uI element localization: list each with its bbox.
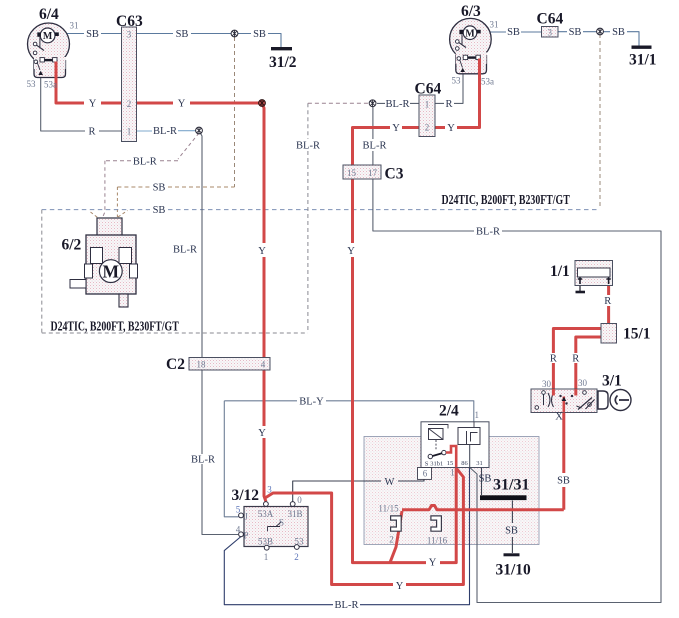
svg-text:S: S [425, 461, 429, 468]
ground 31/2 [271, 47, 292, 50]
svg-text:31: 31 [70, 21, 79, 31]
svg-text:SB: SB [507, 27, 520, 38]
svg-text:6/2: 6/2 [62, 237, 82, 254]
wire BL-R right loop: C3 pin17 down, right, bottom, up to relay pin86 [373, 103, 661, 602]
svg-text:SB: SB [253, 29, 266, 40]
svg-text:31/2: 31/2 [269, 54, 297, 71]
wire SB red from ignition 3/1 X down to bus [562, 396, 565, 510]
wire Y from motor 6/4 pin53a to junction [56, 62, 262, 104]
wire SB dashed drop to pump 6/2 right terminal [117, 187, 127, 217]
wire BL-R from 3/12 pin4 down to bottom rail [224, 468, 469, 605]
svg-text:2: 2 [127, 99, 132, 109]
svg-text:6/3: 6/3 [461, 3, 481, 20]
svg-text:1: 1 [264, 552, 269, 562]
svg-text:0: 0 [297, 495, 302, 505]
svg-text:15/1: 15/1 [623, 326, 651, 343]
junction Y wire node [259, 100, 266, 107]
svg-text:1: 1 [450, 468, 455, 478]
svg-text:53: 53 [27, 79, 37, 89]
connector 11/16 [431, 516, 442, 531]
svg-text:BL-R: BL-R [173, 245, 197, 256]
svg-text:Y: Y [258, 428, 266, 439]
wire Y diagonal from 11/15 to inner loop [390, 511, 402, 563]
small pin labels [27, 20, 588, 563]
wire SB dashed diagonal from box-top into pump left terminal [91, 212, 100, 225]
svg-text:SB: SB [86, 29, 99, 40]
svg-text:1/1: 1/1 [550, 263, 570, 280]
svg-text:BL-R: BL-R [153, 126, 177, 137]
ignition switch 3/1 [531, 389, 597, 413]
wire R from motor 6/4 pin53 to C63 pin1 [41, 74, 137, 131]
fuse 1/1 [575, 261, 613, 286]
ground 31/10 [504, 553, 520, 556]
svg-text:BL-R: BL-R [133, 156, 157, 167]
svg-text:31/10: 31/10 [496, 562, 532, 579]
right dashed vertical x=600 from 31/1 junction [599, 34, 601, 209]
connector C2 [189, 358, 270, 371]
wire X red inside ignition 3/1 [562, 397, 565, 413]
svg-text:6: 6 [423, 469, 428, 479]
wire BL-R from C63 pin1 to junction [137, 130, 200, 132]
junction terminal 15/1 [601, 324, 617, 344]
svg-text:2: 2 [425, 123, 430, 133]
svg-text:31: 31 [476, 460, 483, 467]
svg-text:4: 4 [236, 525, 241, 535]
junction BL-R node [196, 127, 203, 134]
svg-text:R: R [445, 99, 452, 110]
svg-text:SB: SB [479, 474, 492, 485]
svg-text:53B: 53B [258, 536, 273, 546]
wire R from fuse 1/1 to junction 15/1 [607, 284, 610, 324]
wire SB from motor 6/4 pin31 to ground 31/2 [59, 34, 281, 48]
svg-text:D24TIC, B200FT, B230FT/GT: D24TIC, B200FT, B230FT/GT [442, 191, 570, 207]
svg-text:Y: Y [429, 558, 437, 569]
junction SB at C63/31-2 rail [231, 30, 238, 37]
svg-text:2/4: 2/4 [439, 403, 459, 420]
svg-text:6/4: 6/4 [39, 6, 59, 23]
svg-text:53a: 53a [44, 80, 57, 90]
svg-text:3: 3 [548, 28, 553, 38]
svg-text:53: 53 [452, 76, 462, 86]
relay 2/4 [421, 422, 489, 468]
fuse 1/1 left terminal stub [579, 284, 581, 291]
svg-text:18: 18 [197, 360, 207, 370]
wire R stubs inside ignition 3/1 [553, 389, 575, 396]
svg-text:SB: SB [153, 183, 166, 194]
wire R from motor 6/3 pin53 to C64 pin1 [377, 72, 463, 103]
wire BL-R dashed vertical x=307.9 / box right edge [307, 103, 309, 333]
wire BL-R dashed horizontal into junction [308, 102, 368, 104]
connector C3 [343, 165, 381, 179]
svg-text:SB: SB [612, 27, 625, 38]
svg-text:C3: C3 [385, 166, 404, 183]
wire BL-Y from 3/12 pin5 up and right to relay 2/4 [224, 401, 473, 517]
svg-text:C64: C64 [537, 11, 564, 28]
wire BL-R dashed diagonal from junction x=199 [178, 133, 199, 159]
svg-text:SB: SB [505, 526, 518, 537]
wire Y horizontal through 11/16 to ignition X wire [402, 506, 564, 510]
svg-text:BL-R: BL-R [363, 141, 387, 152]
svg-text:D24TIC, B200FT, B230FT/GT: D24TIC, B200FT, B230FT/GT [51, 318, 179, 334]
svg-text:31: 31 [490, 20, 499, 30]
wire SB from bus 31/31 to ground 31/10 [511, 501, 513, 554]
connector C64 (small, top right) [542, 27, 559, 38]
svg-text:11/16: 11/16 [427, 536, 448, 546]
svg-text:W: W [385, 477, 395, 488]
svg-text:3: 3 [267, 485, 272, 495]
svg-text:3: 3 [127, 30, 132, 40]
svg-text:31/31: 31/31 [493, 477, 529, 494]
svg-text:BL-R: BL-R [296, 141, 320, 152]
washer pump 6/2 [70, 218, 138, 307]
wire Y inner loop from relay pin15 to C3/C64 and motor 6/3 pin53a [353, 59, 480, 563]
wire SB dashed horizontal y=187 [117, 186, 234, 188]
JUNCTIONS [196, 28, 604, 134]
svg-text:30: 30 [578, 378, 588, 388]
svg-text:M: M [465, 28, 475, 39]
connector 11/15 [391, 516, 402, 531]
ground bus 31/31 [480, 495, 527, 500]
svg-text:R: R [572, 354, 579, 365]
svg-text:3/1: 3/1 [602, 373, 622, 390]
svg-text:Y: Y [347, 246, 355, 257]
wire Y stub inside motor 6/3 [478, 59, 481, 77]
svg-text:SB: SB [176, 29, 189, 40]
svg-text:86: 86 [461, 460, 468, 467]
svg-text:BL-R: BL-R [476, 227, 500, 238]
svg-text:M: M [43, 31, 53, 42]
junction BL-R at C64 rail [369, 100, 376, 107]
wire BL-R dashed horizontal y=161 [105, 160, 178, 162]
svg-text:2: 2 [294, 552, 299, 562]
svg-text:BL-R: BL-R [191, 455, 215, 466]
connector C63 [122, 27, 137, 142]
svg-text:SB: SB [153, 205, 166, 216]
svg-text:1: 1 [475, 410, 480, 420]
svg-text:1: 1 [425, 100, 430, 110]
ignition key symbol [598, 390, 631, 411]
wire SB dashed long horizontal y=209.6 (also dashed box top) [42, 209, 600, 211]
svg-text:53: 53 [295, 536, 305, 546]
wire SB from motor 6/3 pin31 to ground 31/1 [481, 32, 639, 46]
svg-text:53a: 53a [481, 77, 494, 87]
svg-text:3/12: 3/12 [232, 487, 260, 504]
svg-text:17: 17 [368, 168, 378, 178]
svg-text:31B: 31B [287, 509, 302, 519]
svg-text:SB: SB [569, 27, 582, 38]
junction SB at 31/1 rail [597, 28, 604, 35]
svg-text:2: 2 [389, 535, 394, 545]
svg-text:11/15: 11/15 [378, 504, 399, 514]
svg-text:15: 15 [447, 460, 454, 467]
left dashed box bottom edge [42, 332, 308, 334]
wire BL-R vertical x=202 down through C2 pin18 to 3/12 pin4 [199, 131, 238, 535]
svg-text:Y: Y [396, 581, 404, 592]
wire R from junction 15/1 to ignition 3/1 pin30 (left) [553, 329, 601, 394]
svg-text:S: S [279, 518, 284, 528]
svg-text:Y: Y [258, 246, 266, 257]
svg-text:M: M [103, 262, 120, 282]
svg-text:31/1: 31/1 [629, 52, 657, 69]
svg-text:4: 4 [261, 360, 266, 370]
RED [56, 59, 609, 585]
svg-text:Y: Y [447, 123, 455, 134]
wire colour labels [86, 27, 625, 611]
wire Y stub inside motor 6/4 [55, 62, 58, 81]
svg-text:53A: 53A [258, 509, 274, 519]
svg-text:BL-Y: BL-Y [299, 396, 324, 407]
left dashed box (D24TIC) left edge [41, 210, 43, 333]
DASHED [42, 34, 600, 333]
svg-text:C63: C63 [116, 13, 143, 30]
wiper motor 6/3 [450, 18, 492, 73]
wire R from junction 15/1 to ignition 3/1 pin30 (right) [576, 337, 601, 393]
svg-text:P: P [243, 531, 248, 541]
svg-text:Y: Y [89, 99, 97, 110]
svg-text:31b1: 31b1 [430, 461, 443, 468]
svg-text:Y: Y [178, 99, 186, 110]
wire W from 3/12 pin0 to relay 2/4 pin S [293, 479, 424, 501]
wire BL-R dashed drop to pump left terminal [102, 161, 105, 226]
svg-text:30: 30 [542, 379, 552, 389]
ground 31/1 [632, 46, 652, 49]
svg-text:X: X [555, 412, 563, 423]
svg-text:5: 5 [236, 505, 241, 515]
svg-text:BL-R: BL-R [335, 600, 359, 611]
svg-text:R: R [550, 354, 557, 365]
wire SB dashed from junction to 6/2 (vertical x=234.5) [234, 37, 236, 187]
svg-text:C2: C2 [166, 356, 185, 373]
svg-text:Y: Y [392, 123, 400, 134]
svg-text:1: 1 [127, 127, 132, 137]
connector C64 (vertical, left of motor 6/3) [419, 95, 435, 137]
wiper motor 6/4 [28, 23, 70, 78]
svg-text:BL-R: BL-R [386, 99, 410, 110]
wire from relay pin31 to ground bus 31/31 [481, 468, 483, 496]
relay pin S connector box 6 [418, 468, 432, 480]
svg-text:SB: SB [557, 476, 570, 487]
svg-text:R: R [604, 296, 611, 307]
svg-text:15: 15 [347, 168, 357, 178]
svg-text:C64: C64 [415, 81, 442, 98]
svg-text:J: J [244, 512, 248, 522]
wiper switch 3/12 [239, 502, 308, 550]
wire Y from 3/12 pin3 right and down (outer loop) to relay pin15 [265, 468, 463, 585]
wire Y vertical from junction through C2 pin4 to 3/12 pin3 [262, 103, 266, 502]
svg-text:R: R [88, 127, 95, 138]
central harness hatched area [364, 437, 539, 545]
